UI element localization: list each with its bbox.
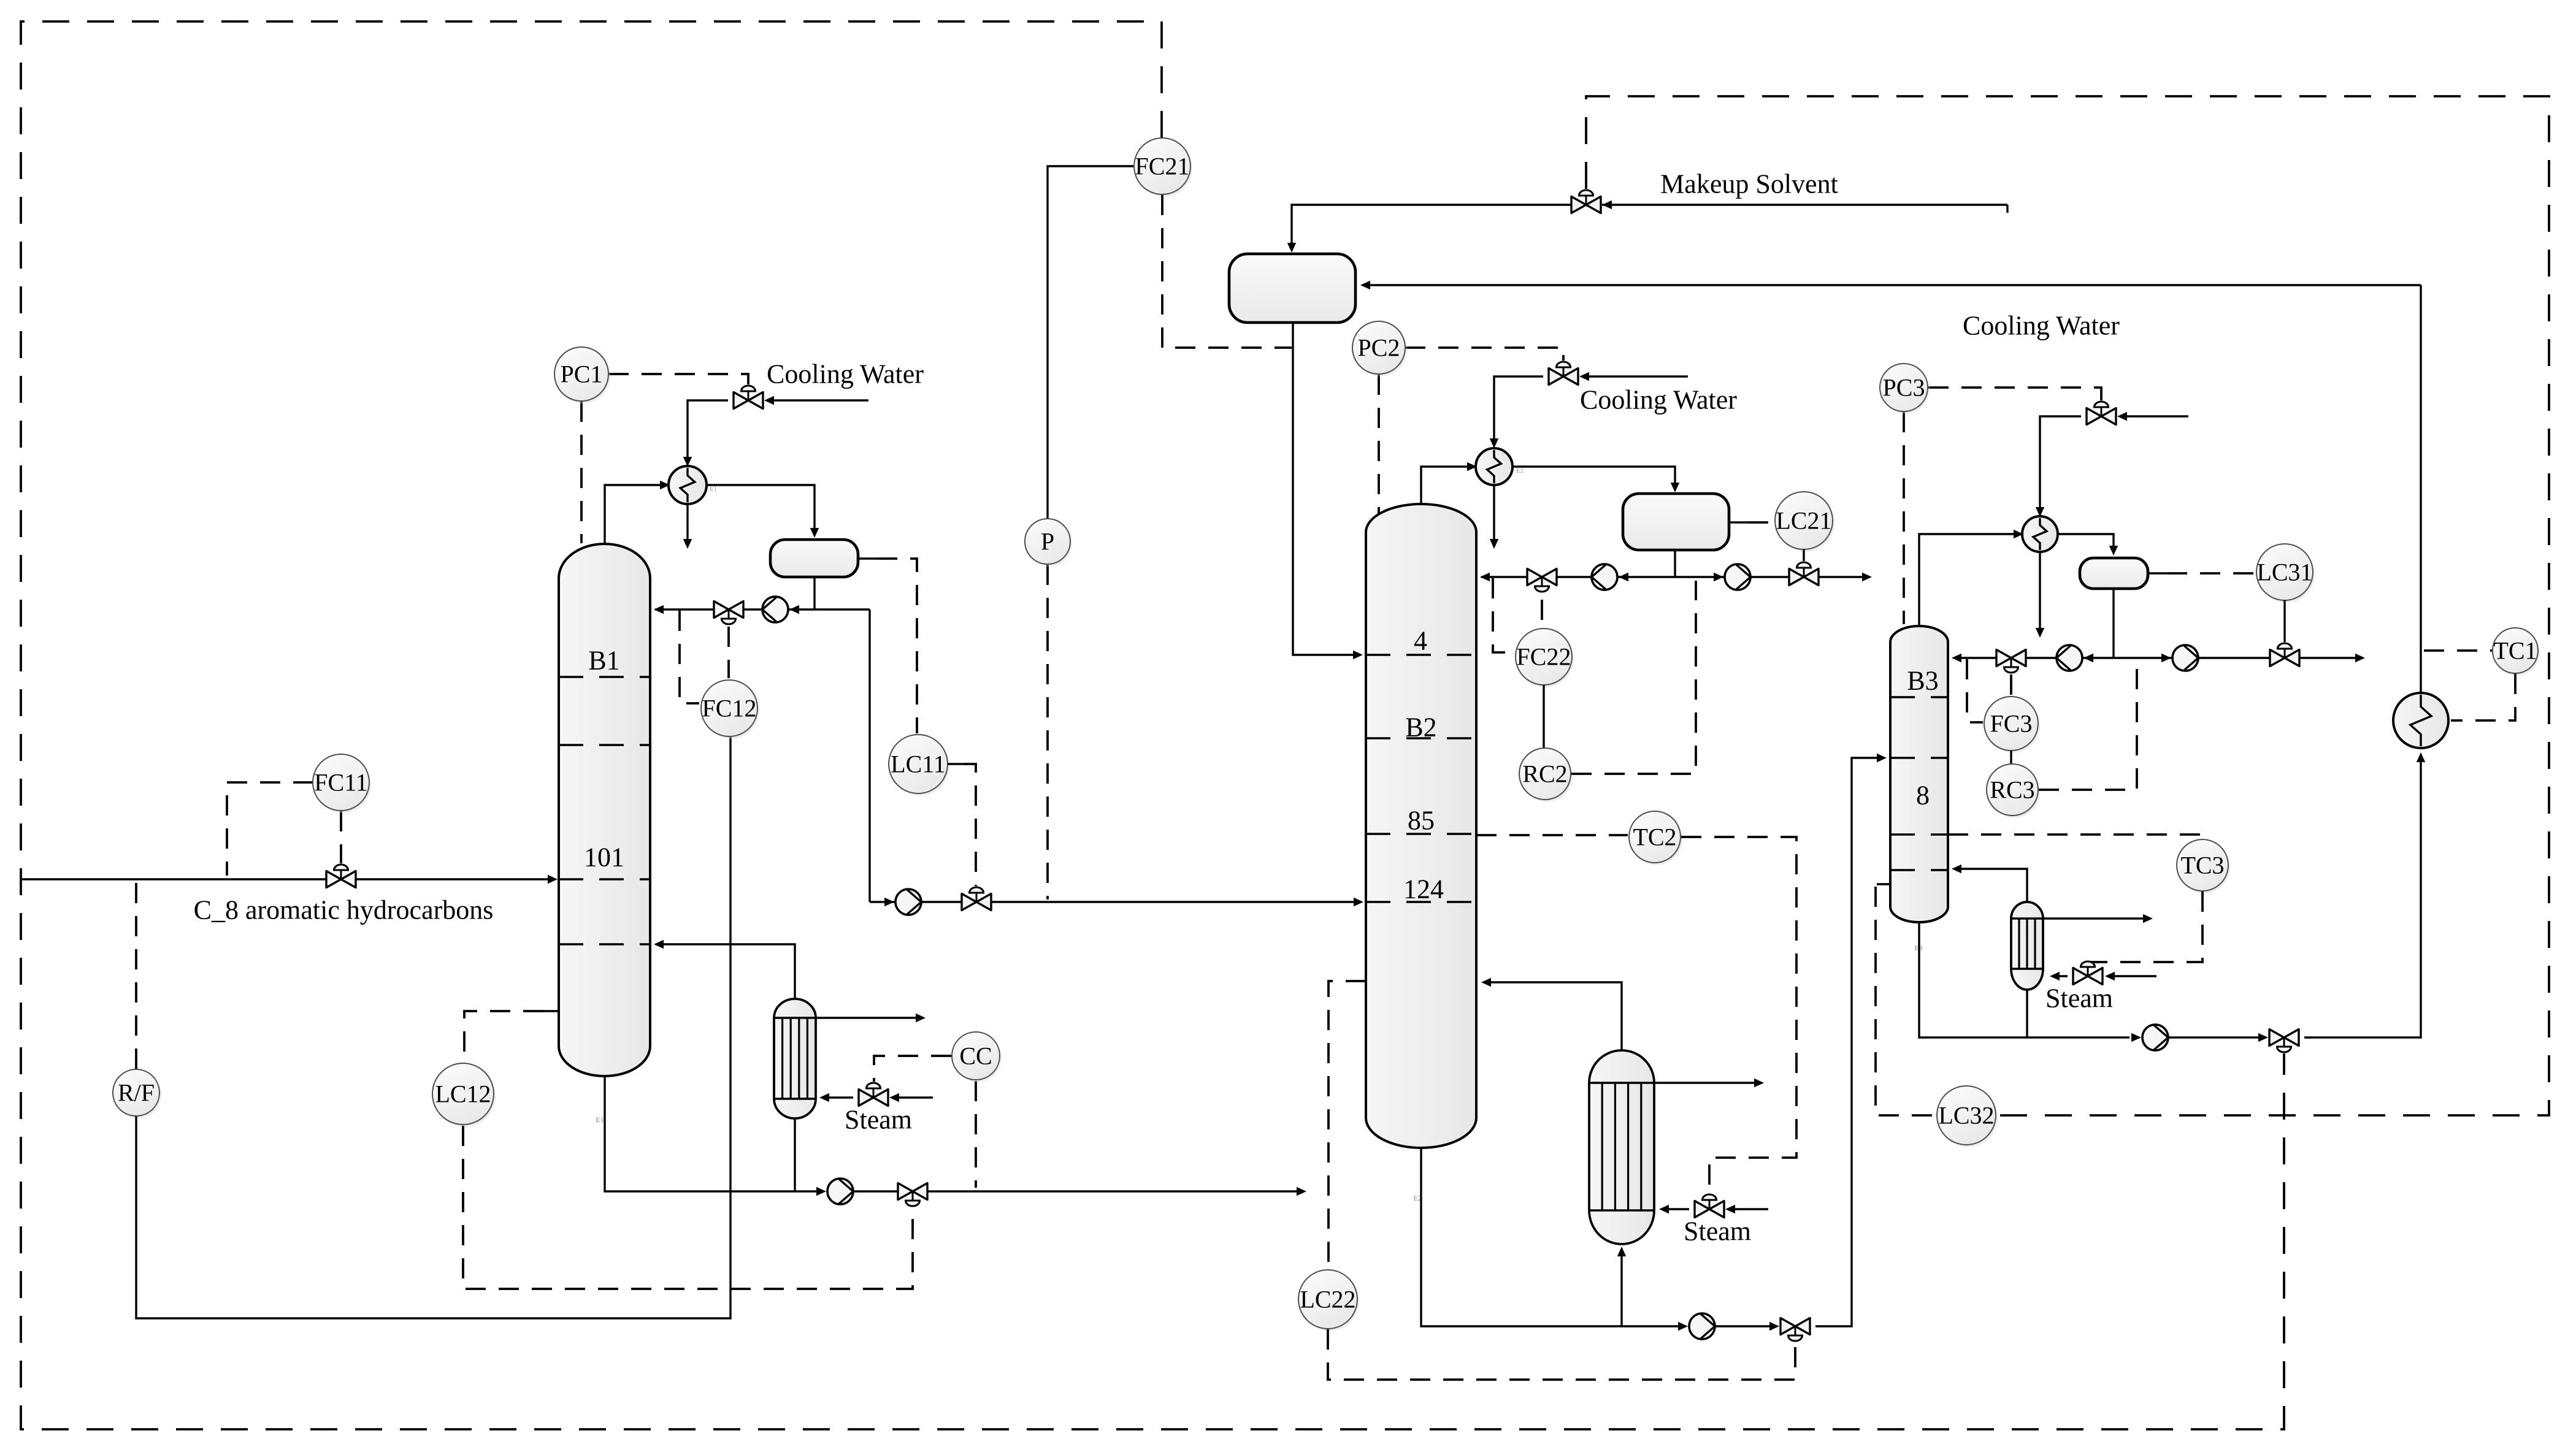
- wire LC31 tap stub: [2148, 572, 2167, 574]
- wire LC21 tap stub: [1729, 521, 1748, 523]
- wire B3 reboiler feed: [2026, 990, 2028, 1037]
- wire B2 reboiler vapour return: [1485, 982, 1622, 1050]
- wire D1 line to B2: [870, 901, 1359, 903]
- svg-text:LC22: LC22: [1300, 1286, 1355, 1313]
- svg-text:LC21: LC21: [1776, 507, 1831, 535]
- arrow cooling water into condenser B1: [683, 457, 692, 467]
- arrow into B3 bottoms valve: [2258, 1033, 2268, 1042]
- arrow steam into B2 reboiler: [1659, 1205, 1669, 1213]
- valve B3 cooling water (PC3): [2087, 408, 2101, 425]
- arrow into B1 reflux pump: [789, 605, 799, 614]
- svg-text:TC1: TC1: [2493, 637, 2537, 665]
- signal reflux valve to FC22: [1541, 600, 1543, 627]
- controller TC2: [1631, 814, 1682, 865]
- pump D3 pump: [2172, 645, 2198, 671]
- signal TC1 tap on recycle line: [2424, 649, 2492, 652]
- arrow steam into B2 valve: [1725, 1205, 1735, 1213]
- wire B3 reboiler vapour return: [1955, 869, 2027, 902]
- wire LC32 tap stub: [1877, 883, 1890, 885]
- wire solvent feed to B2: [1293, 323, 1358, 655]
- svg-text:124: 124: [1403, 874, 1444, 904]
- svg-text:LC31: LC31: [2256, 559, 2312, 586]
- signal TC3 to B3 steam valve: [2090, 892, 2202, 962]
- arrow into B3 condenser: [2014, 530, 2023, 538]
- wire B1 condenser to reflux drum: [707, 485, 815, 533]
- arrow vapour into B3: [1952, 865, 1961, 873]
- wire B2 bottoms riser to B3: [1815, 758, 1882, 1326]
- wire cooling water to condenser B1: [688, 400, 728, 462]
- arrow into B2 condenser: [1467, 462, 1477, 471]
- svg-text:8: 8: [1916, 781, 1930, 811]
- arrow into B2 reboiler bottom: [1617, 1247, 1626, 1256]
- signal PC3 pressure tap: [1903, 412, 1905, 624]
- arrow steam into B3 valve: [2105, 972, 2115, 980]
- arrow B2 vent: [1490, 539, 1498, 549]
- wire LC31 stem: [2283, 600, 2285, 642]
- valve B1 cooling water (PC1): [734, 392, 748, 409]
- valve B1 reflux valve (FC12): [714, 602, 729, 618]
- svg-text:4: 4: [1414, 626, 1427, 656]
- drum B2 reflux drum: [1623, 494, 1729, 550]
- signal LC31 drum tap: [2167, 572, 2256, 575]
- column B2 vessel: [1366, 504, 1476, 1148]
- svg-text:PC3: PC3: [1883, 374, 1925, 402]
- column B1 tray line 3 (feed): [559, 878, 650, 881]
- arrow into B2 bottoms pump: [1678, 1322, 1688, 1331]
- wire B2 cooling water supply: [1585, 375, 1688, 377]
- arrow reflux into B2: [1480, 573, 1490, 581]
- valve B1 bottoms valve (LC12): [898, 1183, 913, 1200]
- pump D1 pump: [895, 889, 921, 915]
- arrow into B1 reflux drum: [810, 528, 819, 538]
- wire B1 bottoms line: [854, 1190, 1300, 1192]
- arrow makeup into valve: [1602, 201, 1612, 209]
- wire B3 steam into reboiler: [2053, 975, 2068, 977]
- arrow into D1 pump: [884, 898, 894, 906]
- svg-text:85: 85: [1408, 806, 1435, 836]
- signal LC21 drum tap: [1748, 521, 1774, 524]
- signal FC21 tap on solvent line: [1162, 195, 1292, 348]
- svg-text:Makeup Solvent: Makeup Solvent: [1660, 169, 1838, 199]
- wire LC12 tap stub: [543, 1010, 559, 1012]
- condenser B1 heat exchanger: [669, 466, 707, 504]
- signal PC1 to cooling water valve: [608, 374, 748, 384]
- wire B3 drum downcomer: [2112, 589, 2114, 658]
- signal CC to steam valve: [874, 1056, 951, 1082]
- signal reflux valve to FC3: [2010, 674, 2012, 695]
- column B2 tray line 85: [1366, 833, 1476, 835]
- arrow into B3 bottoms pump: [2131, 1033, 2141, 1042]
- valve B2 cooling water (PC2): [1549, 369, 1563, 385]
- arrow B2 bottoms into B3 tray8: [1877, 754, 1887, 762]
- arrow into D2 pump: [1714, 573, 1723, 581]
- pump B3 reflux pump: [2057, 645, 2082, 671]
- svg-text:CC: CC: [959, 1042, 992, 1070]
- svg-text:LC11: LC11: [891, 751, 946, 778]
- signal PC3 to cooling water valve: [1928, 388, 2101, 400]
- wire B1 distillate downleg: [868, 609, 870, 902]
- arrow D3 product: [2355, 654, 2365, 662]
- wire B1 reboiler side draw: [816, 1017, 919, 1018]
- signal LC11 drum level tap: [877, 559, 917, 733]
- drum B1 reflux drum: [770, 540, 858, 577]
- column B3 tray line 1: [1890, 696, 1948, 698]
- wire R/F output to FC12: [136, 737, 730, 1318]
- wire B3 reboiler side draw: [2043, 917, 2147, 919]
- valve B3 steam valve (TC3): [2073, 968, 2088, 985]
- wire B2 reboiler side draw: [1654, 1082, 1758, 1083]
- valve B3 reflux valve (FC3): [1996, 650, 2011, 667]
- wire makeup to tank: [1292, 205, 1571, 248]
- arrow D2 product: [1862, 573, 1872, 581]
- column B2 tray line B2: [1366, 737, 1476, 739]
- svg-text:Steam: Steam: [1684, 1217, 1751, 1247]
- controller FC12: [703, 682, 759, 739]
- wire B3 condenser to drum: [2058, 534, 2114, 552]
- arrow D1 into B2: [1354, 898, 1363, 906]
- signal FC11 tap on feed line: [227, 782, 313, 876]
- valve D3 valve (LC31): [2270, 650, 2285, 667]
- wire cooling water to condenser B3: [2040, 416, 2081, 512]
- column B1 tray line 1: [559, 676, 650, 678]
- wire B2 bottoms to valve: [1715, 1325, 1771, 1327]
- arrow vapour into B2: [1481, 978, 1491, 987]
- svg-text:FC3: FC3: [1990, 710, 2033, 738]
- wire B2 steam line: [1730, 1208, 1768, 1210]
- wire B2 reflux line: [1481, 576, 1675, 578]
- signal CC composition tap: [975, 1081, 977, 1188]
- controller PC1: [556, 350, 610, 403]
- signal TC1 to cooler: [2451, 674, 2515, 720]
- pump B2 reflux pump: [1592, 564, 1617, 590]
- svg-text:LC32: LC32: [1938, 1102, 1994, 1129]
- wire B3 overhead vapour line: [1919, 534, 2015, 627]
- wire cooling water to condenser B2: [1494, 376, 1543, 444]
- wire B1 condenser vent: [686, 504, 688, 543]
- condenser B3 heat exchanger: [2022, 516, 2058, 552]
- wire B1 steam line: [894, 1096, 933, 1098]
- svg-text:PC2: PC2: [1358, 334, 1400, 362]
- signal LC22 to bottoms valve: [1328, 1329, 1795, 1380]
- wire B2 condenser vent: [1493, 485, 1495, 543]
- svg-text:RC2: RC2: [1522, 760, 1567, 788]
- arrow into B2 reflux pump: [1619, 573, 1628, 581]
- wire B1 cooling water supply: [769, 399, 868, 401]
- valve feed FC11-valve: [326, 871, 341, 888]
- reboiler B3: [2011, 902, 2043, 990]
- valve B1 steam valve (CC): [859, 1090, 873, 1106]
- arrow makeup into tank: [1287, 243, 1296, 253]
- condenser B2 heat exchanger: [1476, 448, 1512, 485]
- pump B1 bottoms pump: [827, 1179, 853, 1204]
- signal LC12 level tap: [464, 1011, 543, 1062]
- wire C8 feed line: [22, 878, 555, 880]
- wire B1 overhead vapour line: [605, 485, 662, 544]
- arrow cooling water into valve B3: [2117, 412, 2127, 421]
- arrow into B2 drum: [1671, 483, 1679, 492]
- controller PC2: [1354, 324, 1407, 376]
- controller LC21: [1777, 494, 1834, 552]
- pump B1 reflux pump: [762, 597, 788, 622]
- arrow B3 vent: [2036, 628, 2044, 638]
- arrow recycle into cooler: [2417, 752, 2425, 762]
- controller TC1: [2494, 630, 2540, 676]
- column B2 tray line 124: [1366, 901, 1476, 903]
- wire B2 drum downcomer: [1674, 550, 1676, 577]
- wire recycle through cooler to tank: [2420, 285, 2421, 693]
- svg-text:Cooling Water: Cooling Water: [767, 359, 924, 389]
- signal LC12 to bottoms valve: [463, 1126, 913, 1289]
- controller FC21: [1136, 140, 1192, 197]
- column B1 vessel: [559, 544, 650, 1076]
- svg-text:LC12: LC12: [435, 1080, 491, 1108]
- valve B2 reflux valve (FC22): [1527, 569, 1542, 586]
- column B3 tray line 4: [1890, 869, 1948, 871]
- controller RC2: [1521, 751, 1573, 802]
- signal TC2 to B2 steam valve: [1681, 837, 1796, 1193]
- signal TC3 tray tap: [1948, 835, 2204, 838]
- wire B1 drum downcomer: [813, 577, 815, 609]
- svg-text:TC3: TC3: [2180, 852, 2224, 879]
- arrow B2 side draw: [1754, 1079, 1764, 1087]
- wire makeup solvent line: [1602, 204, 2007, 205]
- arrow cooling water into condenser B3: [2036, 507, 2044, 517]
- wire B2 steam into reboiler: [1662, 1208, 1689, 1210]
- arrow reflux into B1: [654, 605, 664, 614]
- controller LC31: [2258, 546, 2315, 603]
- arrow into B3 drum: [2109, 546, 2118, 556]
- wire B3 reflux line: [1954, 657, 2114, 659]
- controller LC32: [1939, 1088, 1998, 1147]
- wire FC3-RC3 cascade: [2010, 751, 2012, 765]
- wire LC11 out stub: [948, 763, 964, 765]
- wire solvent recycle return line: [1364, 284, 2421, 286]
- controller FC22: [1517, 631, 1574, 687]
- reboiler B1: [774, 999, 816, 1118]
- svg-text:P: P: [1041, 528, 1054, 556]
- svg-text:E1: E1: [710, 486, 717, 493]
- signal PC2 to cooling water valve: [1405, 348, 1563, 361]
- signal feed tap to R/F: [135, 883, 137, 1069]
- valve B2 steam valve (TC2): [1695, 1201, 1709, 1218]
- signal LC32 level tap: [1876, 887, 1936, 1115]
- arrow cooling water into valve B1: [764, 396, 774, 405]
- wire B3 bottoms downcomer: [1919, 922, 2129, 1037]
- reboiler B2: [1589, 1050, 1654, 1244]
- wire B2 condenser to drum: [1512, 467, 1675, 487]
- wire B1 steam into reboiler: [822, 1096, 853, 1098]
- column B3 tray line 8: [1890, 757, 1948, 759]
- svg-text:Cooling Water: Cooling Water: [1963, 311, 2120, 341]
- arrow B1 side draw: [916, 1014, 926, 1022]
- arrow cooling water into condenser B2: [1490, 438, 1498, 448]
- arrow reflux into B3: [1952, 654, 1961, 662]
- wire B2 reboiler feed: [1620, 1251, 1622, 1326]
- arrow B1 bottoms product: [1297, 1187, 1306, 1196]
- svg-text:101: 101: [584, 842, 624, 873]
- svg-text:R/F: R/F: [118, 1079, 155, 1107]
- svg-text:B1: B1: [588, 646, 619, 676]
- signal reflux valve to FC12: [727, 627, 730, 678]
- valve D2 valve (LC21): [1789, 569, 1804, 586]
- tank solvent surge tank: [1229, 254, 1355, 323]
- wire D3 product line: [2114, 657, 2360, 659]
- signal RC2 to D2 line: [1571, 581, 1696, 774]
- arrow steam into B1 reboiler: [819, 1093, 829, 1102]
- controller FC3: [1986, 699, 2040, 753]
- signal FC22 flow tap: [1493, 578, 1514, 652]
- column B2 tray line 4: [1366, 654, 1476, 656]
- wire B3 bottoms to valve: [2169, 1036, 2258, 1038]
- arrow B1 vent: [683, 539, 692, 549]
- controller TC3: [2179, 842, 2230, 893]
- signal PC2 pressure tap: [1378, 375, 1380, 514]
- valve B3 bottoms valve (FC21): [2269, 1030, 2284, 1046]
- pump D2 pump: [1725, 564, 1750, 590]
- valve B2 bottoms valve (LC22): [1781, 1318, 1795, 1335]
- controller CC: [954, 1034, 1002, 1082]
- wire B1 bottoms downcomer: [605, 1076, 818, 1191]
- wire B2 bottoms downcomer: [1421, 1148, 1681, 1326]
- arrow vapour into B1: [654, 940, 664, 949]
- wire LC11 tap stub: [858, 557, 877, 559]
- controller FC11: [315, 757, 371, 813]
- controller LC11: [891, 737, 949, 796]
- arrow into B3 reflux pump: [2083, 654, 2093, 662]
- arrow cooling water into valve B2: [1579, 372, 1589, 381]
- controller LC12: [434, 1066, 496, 1127]
- arrow steam into B1 valve: [889, 1093, 899, 1102]
- svg-text:RC3: RC3: [1990, 776, 2034, 804]
- svg-text:PC1: PC1: [561, 361, 603, 388]
- svg-text:Cooling Water: Cooling Water: [1580, 385, 1737, 415]
- wire FC21 to P link: [1048, 166, 1134, 518]
- valve D1 valve (LC11): [962, 894, 976, 911]
- svg-text:FC12: FC12: [702, 695, 757, 722]
- controller RC3: [1988, 766, 2040, 818]
- signal RC3 to D3 line: [2039, 662, 2137, 790]
- wire B1 reboiler feed: [794, 1118, 795, 1191]
- arrow into B1 condenser: [660, 481, 670, 489]
- svg-text:TC2: TC2: [1633, 823, 1676, 851]
- heat-exchanger solvent cooler: [2393, 693, 2448, 748]
- valve makeup solvent valve (LC32): [1571, 197, 1586, 213]
- signal FC12 reflux flow tap: [680, 611, 699, 703]
- svg-text:Steam: Steam: [2045, 984, 2113, 1014]
- wire D2 product line: [1675, 576, 1867, 578]
- wire makeup source tick: [2006, 205, 2008, 213]
- svg-text:FC21: FC21: [1135, 153, 1190, 180]
- svg-text:FC11: FC11: [314, 769, 367, 796]
- svg-text:E2: E2: [1516, 467, 1524, 475]
- column B3 vessel: [1890, 626, 1948, 922]
- arrow recycle into tank: [1360, 281, 1370, 289]
- wire B3 condenser vent: [2039, 552, 2041, 632]
- controller P multiplier: [1027, 521, 1072, 567]
- arrow feed into B1: [548, 875, 558, 884]
- arrow into B1 bottoms pump: [816, 1187, 826, 1196]
- arrow into D3 pump: [2161, 654, 2171, 662]
- arrow B3 side draw: [2143, 914, 2153, 923]
- signal LC22 level tap: [1328, 981, 1366, 1268]
- svg-text:B2: B2: [1405, 712, 1436, 743]
- arrow steam into B3 reboiler: [2050, 972, 2060, 980]
- wire FC22-RC2 cascade: [1543, 685, 1544, 749]
- signal dashed loop: makeup-solvent valve to LC32 via right border: [1586, 96, 2549, 1115]
- drum B3 reflux drum: [2080, 558, 2148, 589]
- arrow into B2 bottoms valve: [1769, 1322, 1779, 1331]
- column B3 tray line 3: [1890, 833, 1948, 836]
- signal FC11 to feed valve: [340, 811, 342, 863]
- svg-text:B3: B3: [1907, 666, 1938, 696]
- controller LC22: [1300, 1272, 1359, 1331]
- wire B2 overhead vapour line: [1421, 467, 1468, 505]
- svg-text:E1: E1: [596, 1115, 604, 1124]
- wire B1 reboiler vapour return: [656, 944, 795, 999]
- pump B3 bottoms pump: [2142, 1025, 2168, 1050]
- column B1 tray line 2: [559, 744, 650, 746]
- signal PC1 pressure tap: [580, 402, 583, 543]
- wire B3 cooling water supply: [2126, 415, 2188, 417]
- signal P multiplier to D1 line: [1046, 565, 1049, 900]
- signal FC3 flow tap: [1967, 659, 1983, 722]
- svg-text:FC22: FC22: [1517, 643, 1571, 671]
- controller R/F: [115, 1072, 161, 1118]
- arrow solvent into B2 tray4: [1353, 651, 1363, 659]
- signal TC2 tray tap: [1476, 834, 1628, 836]
- wire LC21 stem: [1803, 549, 1804, 561]
- wire B3 steam line: [2112, 975, 2156, 977]
- svg-text:C_8 aromatic hydrocarbons: C_8 aromatic hydrocarbons: [194, 895, 494, 925]
- wire B1 reflux line: [655, 608, 870, 610]
- svg-text:Steam: Steam: [845, 1105, 912, 1135]
- controller PC3: [1882, 366, 1930, 414]
- signal LC11 to distillate valve: [964, 764, 976, 886]
- column B1 tray line 4: [559, 943, 650, 945]
- pump B2 bottoms pump: [1689, 1313, 1715, 1339]
- wire solvent recycle riser: [2304, 757, 2421, 1037]
